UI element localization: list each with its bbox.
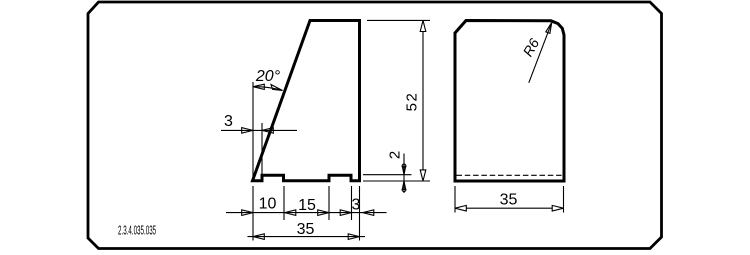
side view dimension 35 line: [466, 207, 552, 209]
dimension 2 extension line bottom: [363, 180, 430, 182]
svg-text:2: 2: [387, 151, 404, 159]
dimension 3 (wall) line: [221, 129, 297, 131]
dimension 35 arrow left: [253, 234, 264, 240]
bottom dimension row line (10/15/3): [226, 212, 387, 214]
dimension 52 arrow up: [420, 20, 426, 31]
side view 35 arrow left: [455, 205, 466, 211]
angle 20 vertical reference extension line: [252, 82, 254, 179]
dimension 35 arrow right: [348, 234, 359, 240]
bottom dimensions extension line at 10: [283, 186, 285, 220]
dimension 52 extension line top: [367, 19, 430, 21]
svg-text:10: 10: [259, 196, 277, 213]
dimension 2 arrow down (tip at upper line): [402, 166, 405, 174]
dimension 52 extension line bottom: [363, 174, 412, 176]
bottom dimensions extension line at 3: [351, 186, 353, 220]
svg-text:35: 35: [297, 221, 315, 238]
svg-text:15: 15: [298, 197, 316, 214]
drawing sheet border frame: [88, 2, 662, 249]
svg-text:3: 3: [352, 197, 361, 214]
side view 35 arrow right: [552, 205, 563, 211]
side view 35 extension line left: [454, 186, 456, 213]
front view outline (wedge with slotted bottom): [253, 21, 360, 181]
angle 20 arrow right: [271, 85, 283, 91]
svg-text:35: 35: [500, 192, 518, 209]
bottom row arrow right of 284 pointing left: [285, 210, 296, 216]
radius R6 arrow: [546, 22, 552, 33]
dimension 2 line: [403, 154, 405, 194]
angle 20 arc: [253, 87, 283, 91]
bottom row arrow outside-left of left edge: [242, 210, 253, 216]
side view hidden slot line (dashed): [457, 174, 563, 176]
side view outline (rounded-top rectangle): [455, 21, 564, 182]
svg-text:52: 52: [404, 92, 421, 112]
angle 20 arrow left: [253, 84, 264, 89]
svg-text:3: 3: [224, 113, 233, 130]
bottom row arrow outside-right of right edge pointing left: [363, 210, 374, 216]
radius R6 leader line: [529, 22, 552, 83]
side view 35 extension line right: [563, 186, 565, 213]
svg-text:2.3.4.035.035: 2.3.4.035.035: [118, 224, 156, 238]
dimension 2 arrow up (tip at lower line): [402, 181, 405, 189]
bottom row arrow left of 351.5 pointing right: [340, 210, 351, 216]
dimension 52 arrow down: [420, 170, 426, 181]
svg-text:20°: 20°: [255, 68, 281, 85]
dimension 52 line: [422, 32, 424, 170]
dimension 35 line (front view): [248, 236, 366, 238]
dimension 3 (wall) arrow right-pointing: [242, 128, 253, 134]
bottom row arrow left of 329 pointing right: [318, 210, 329, 216]
dimension 3 (wall) arrow left-pointing: [262, 128, 273, 134]
bottom dimensions extension line at left edge: [252, 186, 254, 241]
bottom dimensions extension line at 15: [328, 186, 330, 220]
dimension 3 (wall) extension line right: [261, 123, 263, 175]
bottom dimensions extension line at right edge: [359, 186, 361, 241]
